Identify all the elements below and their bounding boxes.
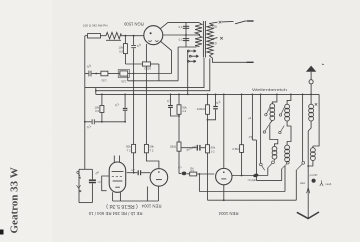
capacitor C14 — [89, 169, 96, 202]
node S — [215, 94, 217, 96]
transformer T1 secondary winding — [195, 23, 202, 47]
coil L1a — [270, 104, 275, 121]
svg-text:0,5: 0,5 — [95, 109, 99, 113]
L2a shorting switch — [279, 108, 284, 117]
node AA — [310, 94, 312, 96]
coil L2b — [285, 145, 290, 162]
wave switch rail — [302, 94, 304, 161]
grid capacitor C12 — [179, 172, 190, 176]
capacitor C9 column — [208, 94, 218, 119]
capacitor C2 — [183, 39, 189, 41]
rheostat R2 — [106, 32, 121, 40]
V2 top pin 1 — [113, 156, 115, 163]
antenna — [306, 66, 316, 105]
svg-text:≈2: ≈2 — [98, 180, 102, 184]
L3a bottom link to earth rail — [308, 121, 311, 131]
capacitor C8 column — [168, 94, 179, 116]
filament return wire — [128, 47, 178, 81]
node X — [199, 173, 201, 175]
resistor R1 — [85, 34, 106, 38]
svg-text:REN 1004: REN 1004 — [218, 211, 238, 216]
svg-text:1,0Ω: 1,0Ω — [101, 79, 106, 82]
svg-text:μ4 237: μ4 237 — [310, 173, 319, 177]
left edge black mark — [0, 230, 4, 235]
L1a-L1b link — [270, 121, 278, 147]
svg-text:0,1: 0,1 — [179, 25, 183, 29]
wire to mains switch — [222, 20, 234, 23]
wire to rectifier — [121, 35, 144, 37]
L2a top lead — [287, 94, 291, 104]
wire R3 bottom row — [125, 63, 142, 65]
S4 riser — [295, 170, 297, 200]
svg-text:1-2: 1-2 — [211, 149, 215, 153]
node Q — [187, 94, 189, 96]
pole contact — [260, 163, 265, 170]
switch S1 contact — [219, 21, 222, 24]
band switch S4 — [297, 161, 305, 169]
svg-text:REN 1004: REN 1004 — [141, 204, 161, 209]
node N — [170, 94, 172, 96]
node O — [178, 94, 180, 96]
node K — [124, 121, 126, 123]
node E2 — [146, 87, 148, 89]
svg-text:1-2: 1-2 — [182, 109, 186, 113]
RF choke C13 — [253, 173, 259, 178]
wire V1 to heater row — [161, 42, 172, 74]
resistor R12 — [177, 142, 181, 174]
wire 220V tap — [209, 22, 217, 23]
pickup line — [85, 121, 92, 123]
svg-text:0,5M: 0,5M — [232, 147, 239, 151]
bus end riser — [313, 94, 319, 146]
band switch S3 — [282, 161, 289, 169]
jack terminal — [312, 179, 316, 183]
svg-text:110: 110 — [211, 42, 216, 46]
return line 3 — [208, 199, 297, 201]
svg-text:1,5Ω: 1,5Ω — [121, 79, 126, 82]
heater wire 2 — [96, 59, 210, 91]
coil L2a — [285, 104, 290, 121]
capacitor C7 — [92, 119, 125, 124]
node AF — [252, 94, 254, 96]
svg-text:120kΩ: 120kΩ — [197, 107, 205, 111]
V2 second leg — [119, 192, 121, 201]
resistor R9 column — [132, 144, 136, 172]
node AE — [302, 94, 304, 96]
wire cap column bottom — [178, 46, 196, 48]
wire R5 to R6 — [108, 73, 120, 75]
S2 riser — [267, 168, 269, 176]
earth symbol — [297, 212, 319, 219]
transformer T1 core — [203, 21, 205, 58]
svg-text:100 Ω 342 AW PH.: 100 Ω 342 AW PH. — [83, 24, 108, 28]
antenna tick — [322, 63, 324, 66]
left rail down — [84, 36, 86, 170]
node E — [95, 90, 97, 92]
node W — [133, 172, 135, 174]
phone jack 2 — [77, 185, 82, 192]
resistor R8 column — [100, 94, 104, 121]
capacitor C11 — [138, 170, 150, 175]
node C — [95, 73, 97, 75]
svg-text:100Ω: 100Ω — [144, 66, 151, 70]
wire C5 to R5 — [96, 73, 101, 75]
wafer return — [257, 180, 282, 182]
L2b riser to return — [284, 166, 286, 192]
node D — [133, 73, 135, 75]
svg-text:220: 220 — [211, 25, 217, 29]
resistor R14 — [206, 145, 210, 201]
AF coupling line — [181, 147, 197, 149]
phones line — [79, 168, 92, 170]
node B — [133, 35, 135, 37]
earth rail — [307, 131, 309, 218]
svg-text:0,5: 0,5 — [119, 50, 123, 54]
wire primary bottom to mains — [209, 56, 246, 63]
detector tube V4 — [216, 168, 232, 184]
output tube V2 (oval) — [109, 162, 126, 192]
band switch S2 — [268, 159, 275, 167]
main HT bus — [96, 93, 319, 95]
coil L3a — [309, 104, 314, 121]
svg-text:( RE16 5.3d ): ( RE16 5.3d ) — [106, 203, 138, 209]
resistor R3 — [123, 36, 127, 64]
svg-text:(5kΩ: (5kΩ — [170, 144, 176, 148]
node F — [185, 34, 187, 36]
wire heater row right — [128, 73, 172, 75]
reaction column — [252, 94, 256, 180]
wire grid to V4 — [197, 173, 215, 175]
resistor R11 column — [177, 94, 181, 142]
node G — [101, 94, 103, 96]
transformer T1 primary winding — [207, 24, 213, 56]
coil L3b — [311, 148, 316, 161]
coil L1b — [272, 146, 277, 159]
mains lead 1 — [247, 20, 254, 22]
svg-text:0,1: 0,1 — [179, 38, 183, 42]
svg-text:(H): (H) — [249, 136, 253, 139]
phone jack 1 — [77, 171, 81, 178]
node H — [124, 94, 126, 96]
node AC — [290, 94, 292, 96]
resistor R4 — [143, 62, 151, 66]
stub to bus — [95, 88, 97, 95]
capacitor C3 — [131, 36, 136, 145]
mid switch 1 — [263, 125, 269, 133]
svg-text:0,5: 0,5 — [191, 170, 195, 173]
return line 2 — [199, 191, 285, 193]
selector rail down to bus — [187, 51, 189, 95]
S3 riser — [281, 169, 283, 181]
svg-text:T 2: T 2 — [149, 148, 153, 152]
svg-text:T 2: T 2 — [127, 148, 131, 152]
V2 top pin 2 — [119, 156, 121, 163]
voltage selector plug 3 — [187, 60, 189, 62]
capacitor C6 column — [123, 94, 128, 121]
heater wire 1 — [85, 58, 204, 88]
stub wire — [146, 187, 148, 202]
earth rail arrow — [307, 188, 310, 193]
svg-text:RGN 1500: RGN 1500 — [123, 21, 143, 26]
node L2 — [133, 80, 135, 82]
resistor R5 — [101, 71, 108, 76]
node U — [223, 94, 225, 96]
phones rail left — [78, 169, 80, 202]
L1a top lead — [272, 94, 277, 103]
wire anode mid tap — [163, 34, 199, 36]
wire V1 cathode down — [145, 44, 147, 62]
voltage selector plug 1 — [187, 50, 189, 52]
transformer cap column wire — [185, 22, 187, 47]
node A — [125, 35, 127, 37]
switch pole rail — [260, 94, 262, 163]
node Z — [241, 175, 243, 177]
node R — [207, 94, 209, 96]
L3b bottom lead — [308, 161, 313, 167]
svg-text:Wellenbereich: Wellenbereich — [252, 88, 287, 92]
node I — [84, 121, 86, 123]
cathode return wire — [113, 200, 159, 202]
L1a shorting switch — [265, 107, 270, 116]
voltage selector plug 2 — [189, 55, 191, 57]
mains switch blade — [235, 21, 246, 24]
resistor R15 column — [240, 94, 244, 175]
node P — [178, 115, 180, 117]
resistor R6 envelope — [118, 70, 129, 78]
110V tap — [211, 38, 218, 40]
svg-text:≈0,2μF: ≈0,2μF — [248, 178, 257, 182]
svg-text:Geatron 33 W: Geatron 33 W — [9, 167, 21, 233]
node AB — [276, 94, 278, 96]
V4 cathode down — [223, 185, 225, 200]
rectifier tube V1 — [144, 26, 163, 45]
trim cross — [315, 103, 317, 105]
node L — [133, 94, 135, 96]
mid switch 2 — [279, 126, 285, 134]
node Y — [223, 199, 225, 201]
node J — [101, 121, 103, 123]
plate line — [232, 175, 268, 177]
AF tube V3 — [150, 169, 168, 187]
capacitor C10 — [197, 145, 205, 151]
coupling line V2 to V1det — [127, 172, 138, 174]
resistor R6 — [120, 71, 128, 76]
svg-text:neuβ: neuβ — [325, 182, 331, 186]
wire R4 to heater drop — [151, 63, 159, 65]
resistor R13 column — [206, 94, 210, 144]
wire V1 anode to transformer top — [161, 22, 200, 28]
switch tap cross — [220, 37, 223, 40]
cathode column — [145, 66, 147, 144]
node AD — [307, 165, 309, 167]
L3b top lead — [312, 146, 314, 148]
svg-text:RE 1b / RE 354 RE 604 / 10: RE 1b / RE 354 RE 604 / 10 — [88, 211, 142, 216]
mains lead 2 — [247, 61, 254, 63]
grid leak R16 — [190, 172, 197, 176]
node V — [241, 94, 243, 96]
node T — [207, 119, 209, 121]
V2 cathode leg — [112, 192, 114, 201]
V3 cathode down — [158, 186, 160, 201]
capacitor C1 — [183, 26, 189, 28]
resistor R10 column — [144, 144, 159, 168]
grid return drop — [198, 174, 200, 192]
node AG — [260, 94, 262, 96]
V2 grid lead — [102, 176, 110, 191]
phones bottom wire — [79, 202, 92, 204]
L2a-L2b link — [287, 121, 291, 145]
capacitor C5 — [85, 71, 96, 77]
grid feed column — [223, 94, 225, 168]
svg-text:Heiz: Heiz — [300, 181, 306, 185]
aux jack — [320, 180, 323, 186]
